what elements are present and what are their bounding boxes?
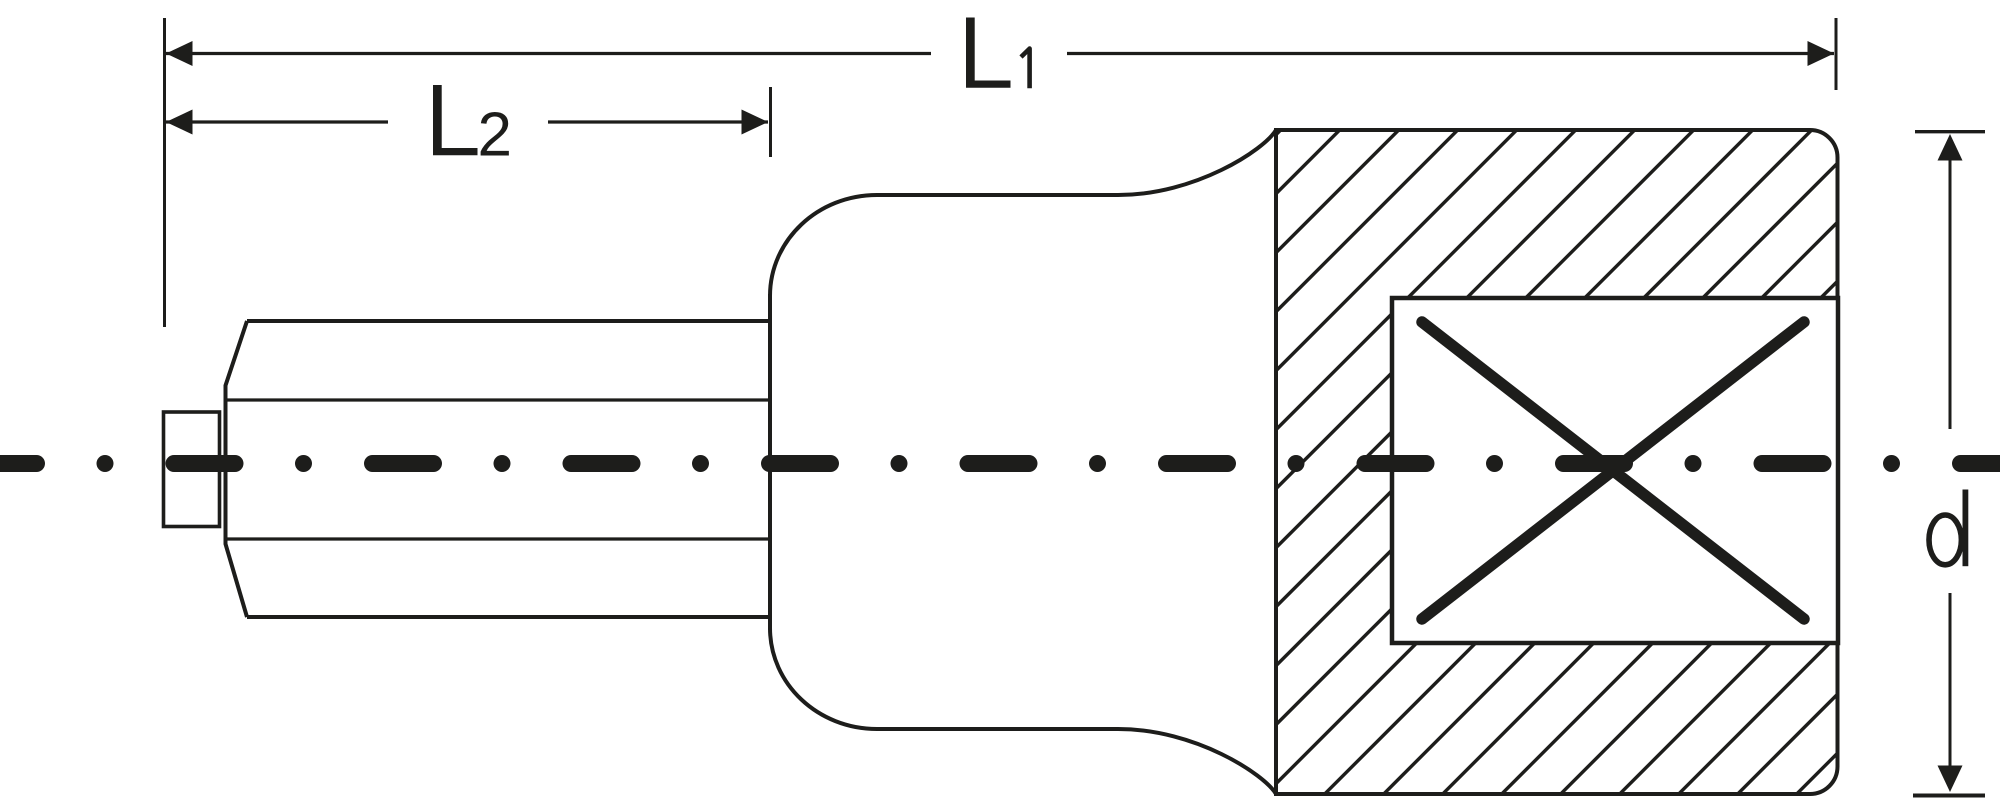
svg-text:2: 2 (478, 101, 512, 170)
